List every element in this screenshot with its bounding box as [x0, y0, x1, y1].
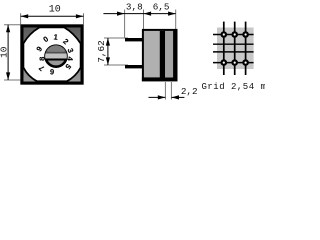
- svg-text:10: 10: [49, 5, 61, 16]
- side view right black edge: [173, 30, 176, 79]
- switch front view: square body with corner shading: [22, 26, 82, 83]
- svg-text:3,8: 3,8: [126, 1, 143, 12]
- pin 1: [125, 38, 144, 41]
- svg-text:6,5: 6,5: [153, 1, 170, 12]
- rotor slot: [43, 45, 69, 61]
- dimension 10 left: line and arrows: [7, 25, 9, 80]
- front view dimension 10 top: extension lines: [21, 13, 84, 24]
- side view body: [143, 30, 177, 80]
- dimension 10 top: line and arrows: [21, 15, 84, 17]
- dimension 2,2: lines and arrows: [149, 96, 185, 98]
- svg-text:10: 10: [0, 46, 9, 58]
- svg-text:6: 6: [50, 67, 55, 76]
- side view top dimensions: extension lines: [125, 10, 176, 38]
- pad row 2: [221, 59, 249, 66]
- footprint vertical traces: [224, 22, 246, 75]
- front frame: [22, 26, 82, 83]
- footprint gray pad area: [217, 28, 254, 70]
- pin 2: [125, 65, 144, 68]
- rotor: [46, 46, 67, 67]
- dimension 7,62: line and arrows: [107, 38, 109, 65]
- front view dimension 10 left: extension lines: [4, 25, 20, 80]
- side view bottom border: [142, 77, 178, 81]
- svg-text:2,2: 2,2: [181, 86, 198, 97]
- side view black stripe: [160, 31, 165, 78]
- svg-text:7,62: 7,62: [96, 40, 107, 62]
- dimension 3,8 and 6,5: line: [103, 13, 175, 15]
- svg-text:Grid 2,54 mm: Grid 2,54 mm: [202, 82, 266, 92]
- pad row 1: [221, 31, 249, 38]
- dimension 7,62: extension lines: [104, 38, 128, 65]
- footprint horizontal traces: [213, 35, 254, 63]
- dial circle: [23, 27, 80, 81]
- dimension 2,2: extension lines: [165, 82, 171, 100]
- side view second gray section: [165, 31, 173, 78]
